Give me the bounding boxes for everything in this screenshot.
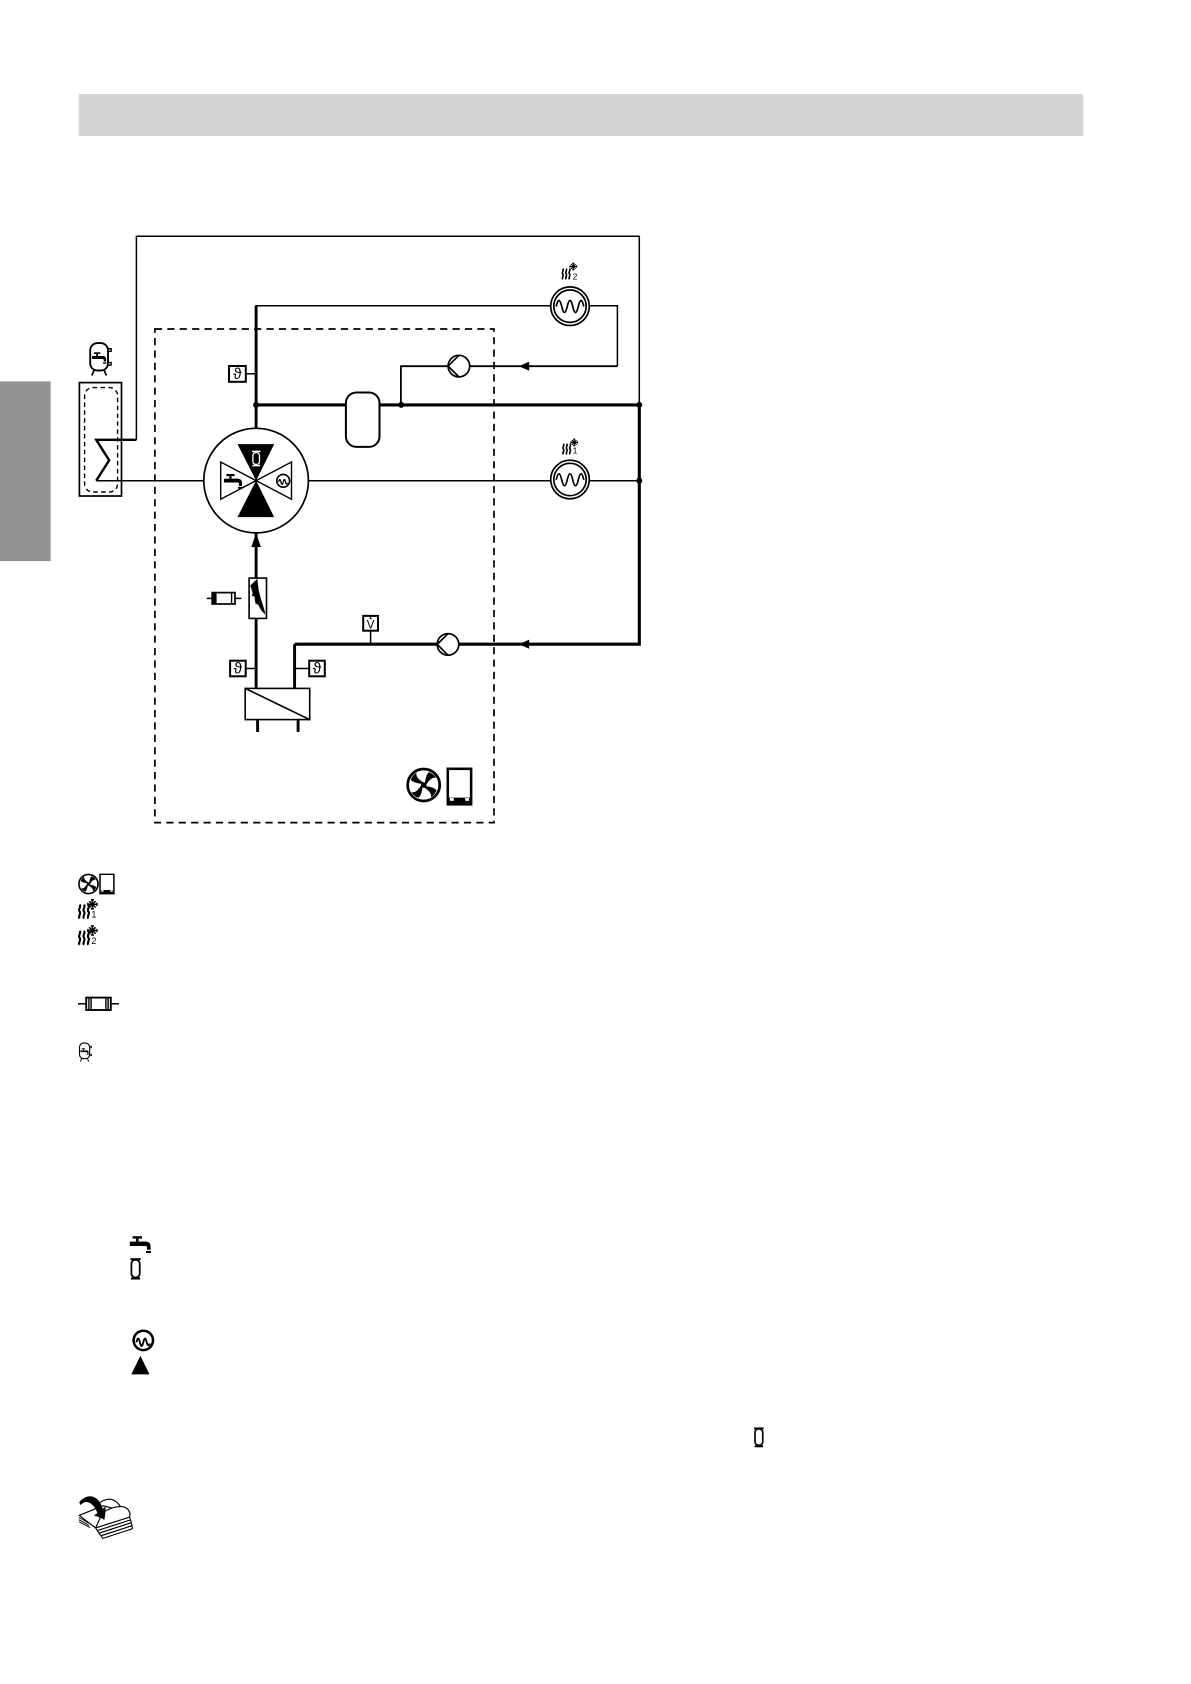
DHW tank icon above cylinder [90, 343, 111, 375]
white capsule icon on top triangle [252, 451, 261, 465]
wire: condenser bottom stub right [297, 720, 300, 732]
pump P2 [448, 355, 470, 377]
sensor box theta (flow temp) [229, 366, 256, 383]
wire: HC1 to right edge [589, 480, 639, 482]
label HC1 [563, 439, 578, 455]
heat pump dashed boundary [155, 329, 494, 823]
wire: heater to condenser (thick) [255, 618, 258, 688]
left page [79, 1506, 122, 1528]
fan (heat pump air side) [408, 769, 440, 801]
node: junction valve riser [253, 402, 259, 408]
book icon (see manual) [79, 1497, 133, 1539]
legend: DHW tank icon [80, 1043, 92, 1061]
legend: mini heating circle [132, 1331, 154, 1350]
right page [96, 1507, 130, 1528]
node: junction pump drop [398, 402, 404, 408]
wire: valve bottom pipe [255, 533, 258, 578]
label HC2 [562, 263, 577, 281]
svg-text:ϑ: ϑ [233, 366, 242, 383]
flow arrow left (return) [519, 640, 529, 649]
svg-text:ϑ: ϑ [234, 661, 243, 678]
flipping page dome [94, 1499, 123, 1512]
legend: heating circuit 1 label [79, 900, 97, 920]
flow arrow left (HC2 return) [519, 362, 529, 371]
legend: fan + controller [79, 874, 98, 893]
condenser (plate heat exchanger) [245, 688, 310, 719]
legend: fuse [78, 998, 119, 1010]
svg-text:1: 1 [573, 446, 578, 456]
sensor box V-dot (flow rate) [363, 616, 378, 644]
flow arrow up (into valve) [251, 533, 261, 547]
DHW cylinder [79, 383, 121, 496]
heating circuit HC2 [551, 287, 590, 326]
node: junction HC1 right [636, 478, 642, 484]
svg-text:ϑ: ϑ [313, 661, 322, 678]
wire: main flow header (thick) [256, 403, 639, 406]
controller (heat pump) [448, 769, 471, 805]
wire: coil top pipe [96, 440, 136, 481]
chapter tab [0, 381, 51, 561]
legend: triangle (flow direction) [131, 1356, 149, 1375]
svg-text:2: 2 [91, 936, 96, 946]
wire: HC2 right drop [589, 306, 617, 366]
header bar [79, 94, 1083, 136]
expansion vessel [346, 393, 380, 447]
capsule symbol (footnote) [754, 1427, 764, 1447]
svg-text:1: 1 [91, 910, 96, 920]
wire: HC1 supply line left [308, 480, 550, 482]
legend: capsule [130, 1258, 140, 1279]
heating circuit HC1 [551, 460, 590, 499]
wire: HC2 return pump line [401, 366, 618, 405]
sensor box theta (condenser out) [230, 661, 256, 678]
wire: outer boundary right (thin) [638, 236, 640, 405]
instantaneous heating water heater [249, 578, 266, 618]
wire: outer boundary left (DHW flow pipe) [135, 236, 137, 440]
pump P1 (primary) [437, 634, 459, 656]
sensor box theta (condenser in) [295, 661, 325, 678]
tap icon in left triangle [224, 474, 242, 489]
wire: HC2 riser thick [255, 306, 258, 429]
legend: tap [130, 1236, 151, 1253]
wire: DHW return line to valve [96, 480, 204, 482]
4-way mixing valve [204, 428, 309, 533]
fanned edges left [79, 1518, 89, 1524]
wire: condenser inlet drop (thick) [293, 644, 296, 688]
wire: HC2 supply line [256, 306, 551, 405]
legend: heating circuit 2 label [79, 926, 97, 946]
curved arrow [80, 1497, 106, 1520]
wire: condenser bottom stub left [256, 720, 259, 732]
svg-text:2: 2 [573, 272, 578, 282]
mini heating circle in right triangle [276, 474, 291, 487]
wire: right return drop (thick) [295, 405, 640, 644]
wire: outer boundary top [136, 235, 639, 237]
svg-text:V: V [367, 619, 375, 631]
node: junction right edge [636, 402, 642, 408]
fuse next to heater [207, 593, 242, 604]
page stack right [96, 1517, 131, 1530]
